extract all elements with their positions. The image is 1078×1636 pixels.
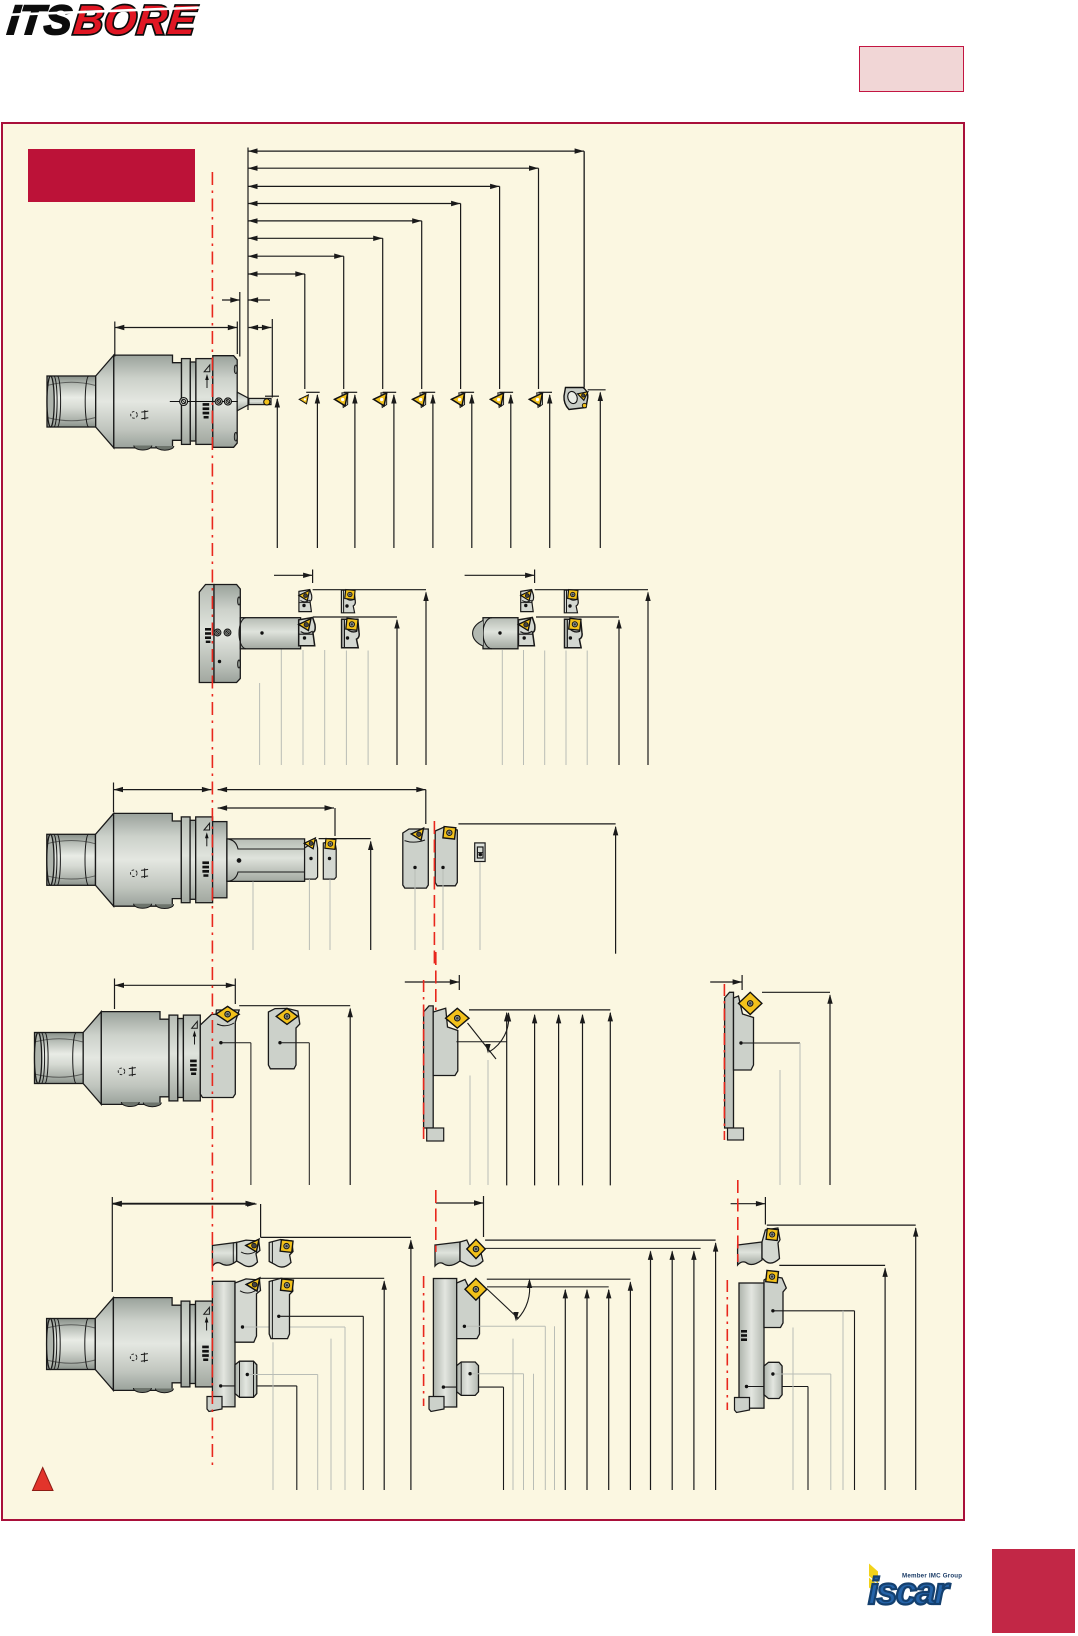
row1 round cartridge tool	[564, 152, 606, 549]
boring head A3	[35, 1012, 201, 1107]
row5 middle knob	[457, 1362, 524, 1490]
row1 insert 5	[451, 392, 474, 548]
row5 middle dims	[485, 1240, 718, 1490]
row3 right long dim	[458, 824, 618, 954]
row4 left dim	[239, 1006, 353, 1185]
row4 head blade holder	[200, 1006, 251, 1185]
main cream panel	[1, 122, 965, 1522]
row1 dim line 4	[248, 201, 461, 389]
red centerline mid rows4-5	[424, 821, 436, 1406]
row5 right plate	[735, 1283, 809, 1490]
row1 dim line 3	[248, 184, 500, 389]
row5 top cartridge B left	[269, 1240, 293, 1268]
row1 dim line 7	[248, 254, 344, 390]
row1 dim line 8	[248, 271, 305, 389]
row1 short dim b	[249, 325, 272, 330]
row3 right holder 2	[435, 827, 457, 886]
ISCAR logo	[866, 1563, 966, 1609]
row1 reference line	[115, 148, 272, 411]
row3 dims mid	[218, 787, 426, 950]
crimson title box	[28, 149, 195, 202]
row5 middle extra drop lines	[513, 1326, 555, 1490]
row1 short dim a	[222, 297, 270, 302]
row2 right cartridge on bar	[518, 618, 535, 646]
row2 boring bar right	[473, 618, 518, 649]
row5 right mounted holder B	[764, 1270, 855, 1490]
rows4-5 boundary dims	[112, 1196, 765, 1292]
row5 right top cartridge	[738, 1228, 780, 1265]
row4 middle dims	[456, 1010, 613, 1186]
row3 right holder 1	[403, 828, 429, 888]
row1 bar tip pointer	[265, 396, 280, 548]
row4 middle drop lines	[470, 1060, 488, 1185]
row4 detached holder	[268, 1008, 309, 1185]
rows3-4 boundary dims	[115, 975, 743, 1009]
row1 dim line 2	[248, 166, 539, 390]
row5 right dims	[767, 1225, 919, 1490]
row2 cartridge on bar	[299, 618, 316, 646]
row4 right holder	[725, 992, 762, 1140]
row3 dims left	[114, 783, 212, 813]
row1 dim line 5	[248, 218, 422, 389]
row2 right detached cartridge B lower	[565, 619, 583, 647]
row2 head front piece	[199, 585, 240, 683]
row5 middle mounted holder	[457, 1279, 546, 1491]
row5 left extra drop lines	[273, 1339, 331, 1490]
row5 right knob	[764, 1362, 831, 1490]
row3 end cartridge A	[304, 838, 317, 879]
row1 insert 1	[299, 392, 320, 548]
row1 insert 2	[335, 392, 358, 548]
boring head A4	[47, 1298, 213, 1393]
row5 middle angle dim	[486, 1279, 532, 1322]
row2 left dims	[274, 570, 429, 766]
bottom red square	[992, 1549, 1075, 1633]
row3 small clamp part	[475, 843, 485, 862]
row5 knob	[235, 1361, 318, 1490]
row4 right dims	[739, 992, 832, 1185]
row3 neck block	[213, 822, 227, 898]
row5 middle top cartridge	[435, 1239, 485, 1266]
row2 right top cartridge B	[564, 590, 578, 613]
row1 dim line 1	[248, 148, 584, 389]
row2 boring bar left	[239, 618, 301, 649]
row2 top cartridge A	[299, 590, 312, 612]
red centerline right rows4-5	[724, 984, 737, 1410]
row5 mounted cartridge A	[235, 1278, 345, 1490]
boring head A2	[47, 813, 213, 908]
row4 angle dim	[468, 1012, 512, 1059]
row5 middle plate	[429, 1279, 504, 1491]
row5 right extra drop lines	[793, 1311, 843, 1490]
row1 insert 6	[490, 392, 513, 548]
row3 detached cartridge B	[323, 839, 336, 880]
row5 top cartridge pair left	[212, 1239, 260, 1266]
row1 insert 3	[374, 392, 397, 548]
row1 dim line 6	[248, 236, 383, 389]
row5 left dims	[112, 1201, 413, 1490]
row5 detached cartridge B	[269, 1278, 363, 1490]
red centerline main	[211, 172, 213, 1468]
row1 insert 4	[413, 392, 436, 548]
row2 left drop lines	[260, 650, 369, 766]
row4 middle holder	[424, 1006, 469, 1141]
row1 insert 7	[529, 392, 552, 548]
row2 top cartridge B	[341, 590, 355, 613]
row2 right dims	[465, 570, 651, 766]
boring head A1	[47, 355, 271, 450]
row1 dim head length	[115, 325, 238, 330]
row3 T extension bar	[227, 839, 305, 882]
row5 big front plate	[207, 1281, 297, 1490]
row2 detached cartridge B lower	[342, 619, 360, 647]
ITSBORE logo	[4, 1, 204, 39]
top-right pink box	[859, 46, 964, 92]
row2 right drop lines	[502, 650, 587, 765]
row2 right top cartridge A	[521, 590, 534, 612]
row3 drop lines	[253, 862, 480, 950]
